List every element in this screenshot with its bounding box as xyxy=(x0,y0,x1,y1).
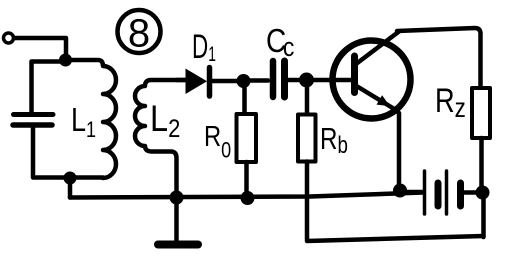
node E junction dot xyxy=(299,73,314,88)
wire node C to Cc xyxy=(248,78,268,83)
wire diode to node C xyxy=(212,79,238,84)
diode D1 xyxy=(186,68,210,97)
wire Rz to battery plus node xyxy=(479,138,484,190)
battery plus junction dot xyxy=(476,186,490,200)
wire node E down to Rb xyxy=(305,84,310,115)
battery B1 xyxy=(425,171,478,214)
node D junction dot xyxy=(241,191,255,205)
inductor L1 xyxy=(65,60,116,178)
resistor R0 xyxy=(237,114,257,162)
wire R0 to ground rail xyxy=(244,162,249,197)
wire L2 to diode anode xyxy=(177,78,186,83)
wire capacitor to node B xyxy=(33,128,103,178)
wire battery minus node to battery xyxy=(405,190,422,195)
resistor Rb xyxy=(298,115,316,162)
transistor (NPN) xyxy=(333,32,411,119)
figure number 8 circle xyxy=(118,10,161,53)
ground rail wire xyxy=(70,193,423,198)
wire Cc to node E xyxy=(288,78,301,83)
ground xyxy=(158,198,198,245)
node C junction dot xyxy=(237,74,251,88)
wire node C down to R0 xyxy=(242,84,247,114)
wire emitter to battery minus node xyxy=(394,109,399,188)
capacitor Cc xyxy=(273,61,285,97)
wire node A to capacitor xyxy=(32,62,66,113)
resistor Rz xyxy=(472,88,490,138)
wire node B down to ground rail xyxy=(68,178,73,198)
svg-text:8: 8 xyxy=(128,12,150,56)
capacitor C1 bottom plate xyxy=(13,122,52,128)
node A junction dot xyxy=(59,54,72,67)
input terminal xyxy=(4,33,14,43)
capacitor C1 top plate xyxy=(14,112,54,117)
wire Rb to bottom rail xyxy=(305,162,310,240)
wire bottom rail up to battery plus xyxy=(481,195,486,237)
battery minus junction dot xyxy=(393,184,407,198)
wire collector to Rz xyxy=(397,28,481,88)
wire terminal to node A xyxy=(14,38,66,58)
ground junction dot xyxy=(170,191,184,205)
inductor L2 xyxy=(135,80,190,197)
node B junction dot xyxy=(64,172,77,185)
wire node E to base xyxy=(313,78,351,83)
bottom rail wire xyxy=(307,236,484,241)
